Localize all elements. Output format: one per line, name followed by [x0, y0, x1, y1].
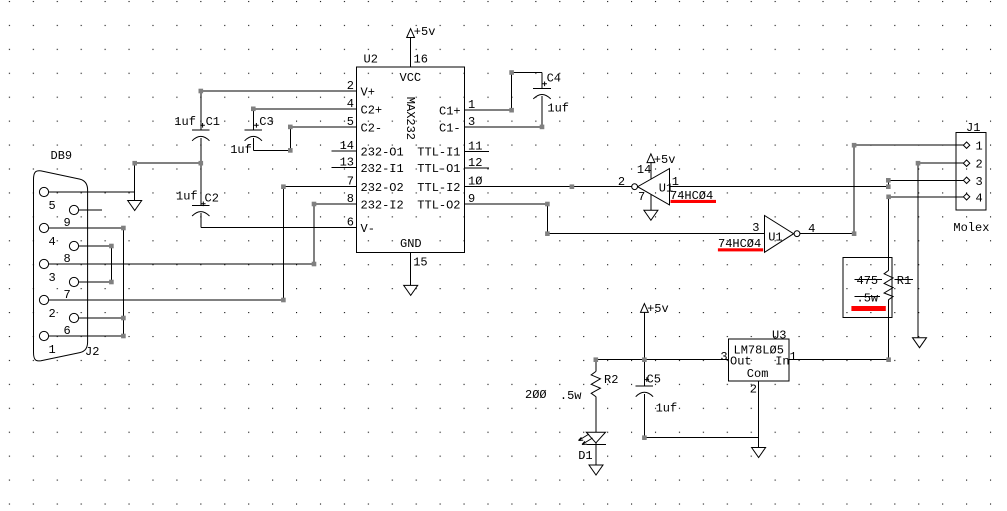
- DB9 pin 9: [64, 205, 79, 230]
- wire U2 pin7 to DB9 pin2: [282, 187, 284, 300]
- svg-text:Com: Com: [747, 367, 769, 381]
- wire DB9 pin 8: [79, 245, 112, 247]
- connector J2 DB9 shell: [34, 149, 100, 361]
- DB9 pin 6: [64, 313, 79, 338]
- svg-text:TTL-O2: TTL-O2: [417, 199, 460, 213]
- svg-text:R1: R1: [897, 274, 911, 288]
- svg-text:1: 1: [468, 98, 475, 112]
- IC U2 MAX232 body: [357, 53, 465, 253]
- wire DB9 pin 6: [79, 317, 124, 319]
- ground at DB9 pin5: [128, 201, 142, 211]
- capacitor C2: [176, 190, 219, 228]
- Molex pin 2: [963, 158, 982, 172]
- DB9 pin 4: [39, 223, 55, 249]
- wire DB9 pin 9 stub: [79, 209, 102, 211]
- svg-text:9: 9: [468, 192, 475, 206]
- wire D1 cathode to ground: [595, 443, 597, 465]
- svg-text:DB9: DB9: [51, 149, 73, 163]
- U2 pin 3 C1-: [439, 115, 542, 135]
- svg-text:+5v: +5v: [414, 25, 436, 39]
- svg-text:U1: U1: [768, 230, 782, 244]
- svg-text:15: 15: [413, 256, 427, 270]
- svg-text:4: 4: [347, 97, 354, 111]
- U2 pin 13 232-I1: [331, 155, 403, 176]
- svg-text:475: 475: [857, 274, 879, 288]
- wire DB9 pin 4: [49, 227, 124, 229]
- svg-text:14: 14: [637, 163, 651, 177]
- regulator U3 LM78L05: [720, 329, 796, 397]
- svg-text:13: 13: [340, 155, 354, 169]
- svg-text:3: 3: [468, 115, 475, 129]
- svg-text:8: 8: [347, 192, 354, 206]
- svg-text:U2: U2: [364, 53, 378, 67]
- U2 pin 6 V-: [201, 216, 375, 237]
- svg-text:232-I2: 232-I2: [361, 199, 404, 213]
- gate A pin 7 ground wire: [650, 194, 652, 211]
- DB9 pin 7: [64, 277, 79, 302]
- Molex pin 1: [963, 140, 982, 154]
- svg-text:R2: R2: [604, 373, 618, 387]
- svg-text:C3: C3: [259, 115, 273, 129]
- U2 pin 10 TTL-I2: [417, 175, 631, 196]
- wire DB9 pin5 to GND node: [49, 163, 135, 200]
- wire joining DB9 pins 8 and 7: [110, 246, 112, 282]
- wire gate A input to Molex pin 3: [670, 180, 965, 186]
- svg-text:1uf: 1uf: [176, 190, 198, 204]
- U2 pin 15 GND wire: [411, 252, 428, 285]
- svg-text:1uf: 1uf: [174, 115, 196, 129]
- svg-text:V+: V+: [361, 86, 375, 100]
- ground at Molex pin 2: [913, 338, 927, 348]
- svg-text:In: In: [775, 355, 789, 369]
- wire C3 bottom jog to U2 pin5: [253, 127, 290, 150]
- svg-text:1: 1: [976, 140, 983, 154]
- wire gate B output to Molex pin 1: [800, 145, 964, 234]
- wire DB9 pin 2 to node: [49, 299, 284, 301]
- svg-text:5: 5: [347, 115, 354, 129]
- svg-text:GND: GND: [400, 237, 422, 251]
- svg-text:2: 2: [750, 382, 757, 396]
- svg-text:.5w: .5w: [560, 389, 582, 403]
- svg-text:16: 16: [414, 53, 428, 67]
- +5v at U2 pin 16: [407, 25, 436, 39]
- wire Molex pin 2 to ground: [918, 163, 964, 338]
- resistor R1: [855, 270, 914, 359]
- U2 pin 4 C2+: [253, 97, 382, 118]
- svg-text:2ØØ: 2ØØ: [525, 388, 547, 402]
- svg-text:2: 2: [618, 175, 625, 189]
- svg-text:U3: U3: [772, 329, 786, 343]
- wire DB9 pin 7: [79, 281, 112, 283]
- wire DB9 pin 1: [49, 335, 124, 337]
- svg-text:C4: C4: [547, 72, 561, 86]
- svg-text:C2-: C2-: [361, 121, 383, 135]
- DB9 pin 1: [39, 331, 55, 357]
- box around R1 values: [843, 258, 892, 318]
- svg-text:V-: V-: [361, 222, 375, 236]
- svg-text:C2+: C2+: [361, 103, 383, 117]
- wire U2 pin8 to DB9 pin3: [313, 204, 315, 264]
- svg-text:MAX232: MAX232: [403, 97, 417, 140]
- svg-text:232-O1: 232-O1: [361, 146, 404, 160]
- svg-text:12: 12: [468, 156, 482, 170]
- svg-text:J1: J1: [966, 121, 980, 135]
- connector J1 Molex body: [953, 121, 989, 235]
- U2 pin 2 V+: [201, 79, 375, 100]
- svg-text:3: 3: [976, 175, 983, 189]
- svg-text:TTL-I1: TTL-I1: [417, 146, 460, 160]
- inverter U1 gate B 74HC04: [718, 216, 815, 253]
- svg-text:+5v: +5v: [654, 153, 676, 167]
- svg-text:7: 7: [638, 190, 645, 204]
- svg-text:2: 2: [49, 307, 56, 321]
- ground at gate A pin 7: [644, 210, 658, 220]
- DB9 pin 3: [39, 259, 55, 285]
- DB9 pin 8: [64, 241, 79, 266]
- junction nodes (gray squares): [109, 70, 920, 440]
- U2 pin 16 VCC wire: [411, 37, 428, 67]
- svg-text:TTL-I2: TTL-I2: [417, 181, 460, 195]
- ground at D1: [589, 465, 603, 475]
- svg-text:C1+: C1+: [439, 105, 461, 119]
- U2 pin 1 C1+: [439, 98, 512, 119]
- U2 pin 11 TTL-I1: [417, 140, 489, 160]
- svg-text:C2: C2: [205, 192, 219, 206]
- U3 Com pin 2 wire: [758, 381, 760, 447]
- ground at U2 pin 15: [404, 285, 418, 295]
- red underline at R1: [851, 306, 885, 311]
- svg-text:6: 6: [347, 216, 354, 230]
- svg-text:2: 2: [976, 158, 983, 172]
- svg-text:+5v: +5v: [647, 302, 669, 316]
- LED D1: [578, 432, 606, 463]
- DB9 pin 2: [39, 295, 55, 321]
- wire DB9 pin 3 to node: [49, 263, 314, 265]
- capacitor C1: [174, 91, 220, 205]
- svg-text:.5w: .5w: [857, 292, 879, 306]
- svg-text:2: 2: [347, 79, 354, 93]
- svg-text:4: 4: [49, 235, 56, 249]
- capacitor C5: [636, 373, 678, 438]
- svg-text:C1: C1: [206, 115, 220, 129]
- svg-text:D1: D1: [578, 449, 592, 463]
- svg-text:3: 3: [49, 271, 56, 285]
- wire joining DB9 pins 4 6 1: [122, 228, 124, 336]
- +5v at gate A pin 14: [647, 153, 675, 180]
- svg-text:3: 3: [752, 221, 759, 235]
- svg-text:1: 1: [49, 343, 56, 357]
- svg-text:1uf: 1uf: [656, 402, 678, 416]
- svg-text:VCC: VCC: [400, 71, 422, 85]
- wire U2 pin9 to gate B input: [547, 204, 764, 234]
- svg-text:5: 5: [49, 199, 56, 213]
- capacitor C3: [230, 109, 274, 157]
- wire GND node to C1/C2 junction: [135, 162, 201, 164]
- U2 pin 8 232-I2: [314, 192, 404, 213]
- svg-text:232-I1: 232-I1: [361, 162, 404, 176]
- wire U3 In to R1: [789, 359, 889, 361]
- svg-text:1: 1: [790, 350, 797, 364]
- red underline 74HC04 gate A: [671, 200, 717, 203]
- wire U2 pin1 to C4: [512, 73, 542, 111]
- DB9 pin 5: [39, 187, 55, 213]
- svg-text:TTL-O1: TTL-O1: [417, 162, 460, 176]
- capacitor C4: [533, 72, 569, 127]
- U2 pin 7 232-O2: [283, 175, 403, 196]
- svg-text:1uf: 1uf: [547, 102, 569, 116]
- svg-text:J2: J2: [85, 345, 99, 359]
- ground at U3 Com: [752, 448, 766, 458]
- Molex pin 3: [963, 175, 982, 189]
- Molex pin 4: [963, 191, 982, 205]
- red underline 74HC04 gate B: [718, 248, 763, 251]
- U2 pin 14 232-O1: [331, 139, 403, 160]
- svg-text:3: 3: [720, 350, 727, 364]
- +5v at regulator output: [641, 302, 669, 386]
- svg-text:7: 7: [347, 175, 354, 189]
- U2 pin 12 TTL-O1: [417, 156, 489, 176]
- svg-text:1Ø: 1Ø: [468, 175, 482, 189]
- svg-text:C1-: C1-: [439, 121, 461, 135]
- inverter U1 gate A 74HC04: [618, 163, 713, 205]
- svg-text:11: 11: [468, 140, 482, 154]
- svg-text:Molex: Molex: [953, 221, 989, 235]
- U2 pin 5 C2-: [290, 115, 382, 135]
- svg-text:14: 14: [340, 139, 354, 153]
- wire C5 bottom to U3 Com: [644, 437, 758, 439]
- U2 pin 9 TTL-O2: [417, 192, 547, 213]
- wire +5v rail U3 Out: [596, 359, 729, 361]
- svg-text:1uf: 1uf: [230, 143, 252, 157]
- resistor R2: [525, 360, 618, 433]
- svg-text:232-O2: 232-O2: [361, 181, 404, 195]
- svg-text:4: 4: [976, 191, 983, 205]
- wire Molex pin 4 to R1: [889, 197, 964, 271]
